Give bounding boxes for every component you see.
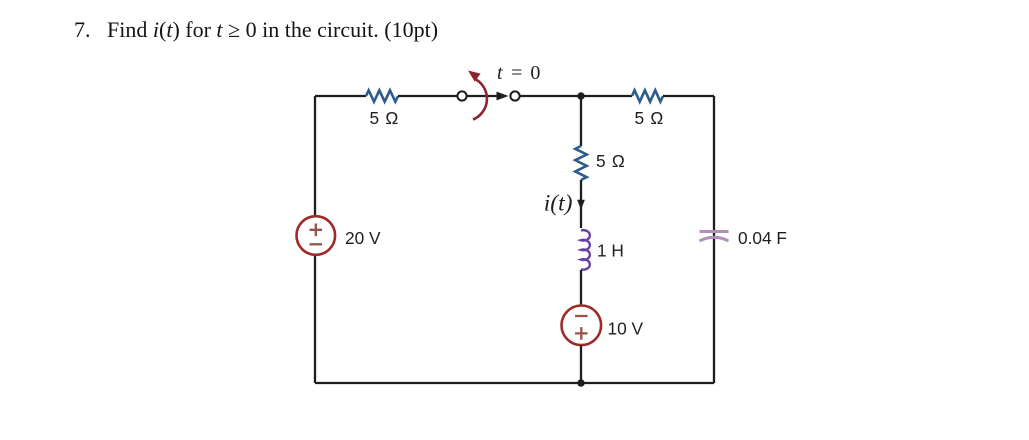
capacitor C1 top plate [700, 230, 729, 233]
bottom node junction dot [577, 379, 584, 386]
source V1 minus mark [310, 243, 323, 245]
wire inductor to source V2 [580, 270, 582, 305]
title [74, 17, 438, 43]
switch red arrowhead [468, 71, 481, 82]
capacitor C1 curved plate [700, 237, 729, 241]
svg-text:5 Ω: 5 Ω [635, 108, 664, 128]
switch contact circle right [510, 91, 519, 100]
svg-text:5 Ω: 5 Ω [370, 108, 399, 128]
svg-text:i(t): i(t) [544, 191, 573, 217]
inductor L1 1H [581, 230, 590, 270]
wire left vertical top [314, 96, 316, 216]
wire source V2 to bottom node [580, 345, 582, 383]
svg-text:5 Ω: 5 Ω [596, 151, 625, 171]
wire node A to R2 [581, 95, 632, 97]
svg-text:20 V: 20 V [345, 228, 381, 248]
resistor R1 5ohm top-left [366, 90, 398, 101]
source V1 plus mark [310, 224, 323, 237]
svg-text:1 H: 1 H [597, 241, 624, 261]
svg-text:0.04 F: 0.04 F [738, 228, 787, 248]
source V2 minus mark [575, 315, 588, 317]
wire bottom [315, 382, 714, 384]
wire top-left segment [315, 95, 366, 97]
wire R2 to top-right corner [663, 95, 714, 97]
resistor R3 5ohm middle [575, 146, 586, 180]
i(t) current arrowhead [577, 200, 585, 210]
wire middle branch node A to R3 [580, 96, 582, 146]
switch arrowhead [497, 92, 509, 101]
wire R1 to switch [398, 95, 457, 97]
resistor R2 5ohm top-right [632, 90, 663, 101]
svg-text:10 V: 10 V [608, 319, 644, 339]
switch contact line with arrow [467, 95, 498, 97]
wire R3 to inductor with current direction [580, 180, 582, 228]
svg-text:t=0: t=0 [497, 62, 540, 84]
source V2 10V circle [562, 306, 602, 346]
node A junction dot [577, 92, 584, 99]
source V1 20V circle [297, 216, 336, 255]
source V2 plus mark [575, 327, 588, 340]
switch red arc [473, 80, 487, 120]
switch contact circle left [457, 91, 466, 100]
wire left vertical bottom [314, 255, 316, 384]
wire right side vertical [713, 96, 715, 383]
wire switch to node A [520, 95, 581, 97]
